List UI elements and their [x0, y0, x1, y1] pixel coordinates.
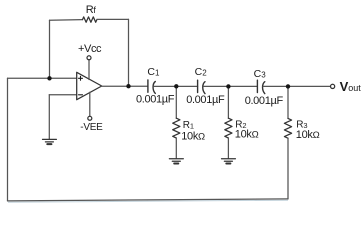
resistor R1	[173, 118, 180, 138]
wire bottom scan fringe	[8, 200, 288, 202]
wire left vertical feedback	[7, 78, 9, 201]
svg-text:+Vcc: +Vcc	[78, 43, 102, 55]
ground under R2	[222, 159, 236, 164]
node C2 R2	[226, 84, 230, 88]
wire feedback right vertical	[128, 19, 130, 86]
svg-text:C3: C3	[254, 68, 267, 80]
capacitor C2	[198, 80, 205, 93]
ground under inverting input	[43, 139, 57, 144]
wire inverting input to ground	[48, 95, 50, 139]
wire R1 top	[175, 86, 177, 118]
wire feedback top left vertical	[49, 20, 51, 78]
-VEE terminal	[89, 92, 91, 116]
wire R2 bottom	[227, 138, 229, 158]
wire R3 bottom to feedback	[287, 138, 289, 199]
wire R3 top	[287, 86, 289, 118]
wire R2 top	[227, 86, 229, 118]
wire op-amp output	[102, 85, 148, 87]
resistor R2	[225, 118, 232, 138]
wire C1 to C2	[154, 85, 198, 87]
op-amp plus input sign	[79, 76, 83, 80]
svg-text:0.001µF: 0.001µF	[136, 94, 175, 106]
capacitor C1	[148, 80, 155, 93]
resistor Rf	[83, 17, 97, 22]
svg-text:Rf: Rf	[86, 4, 97, 16]
ground under R1	[169, 159, 183, 164]
node at noninverting input	[47, 76, 51, 80]
node C3 R3	[286, 84, 290, 88]
Vout terminal	[331, 84, 335, 88]
wire inverting input horizontal	[49, 94, 76, 96]
wire R1 bottom	[175, 138, 177, 158]
svg-text:C1: C1	[147, 66, 160, 78]
+Vcc terminal	[88, 60, 90, 80]
wire C2 to C3	[204, 85, 258, 87]
node C1 R1	[174, 84, 178, 88]
wire feedback top horizontal right	[97, 18, 129, 20]
op-amp U1	[77, 72, 102, 99]
svg-text:0.001µF: 0.001µF	[245, 95, 284, 107]
wire bottom feedback	[8, 199, 289, 201]
wire feedback top horizontal left	[50, 19, 83, 22]
svg-text:C2: C2	[195, 66, 208, 78]
svg-text:0.001µF: 0.001µF	[186, 94, 225, 106]
svg-text:-VEE: -VEE	[80, 122, 103, 133]
wire C3 to Vout	[263, 85, 330, 87]
op-amp minus input sign	[79, 94, 83, 96]
capacitor C3	[257, 80, 264, 93]
node at op-amp output	[126, 84, 130, 88]
wire noninverting input	[8, 77, 77, 79]
svg-text:10kΩ: 10kΩ	[181, 130, 205, 142]
svg-text:Vout: Vout	[340, 79, 362, 94]
svg-text:10kΩ: 10kΩ	[296, 129, 320, 141]
svg-text:10kΩ: 10kΩ	[235, 128, 259, 140]
resistor R3	[284, 118, 291, 138]
